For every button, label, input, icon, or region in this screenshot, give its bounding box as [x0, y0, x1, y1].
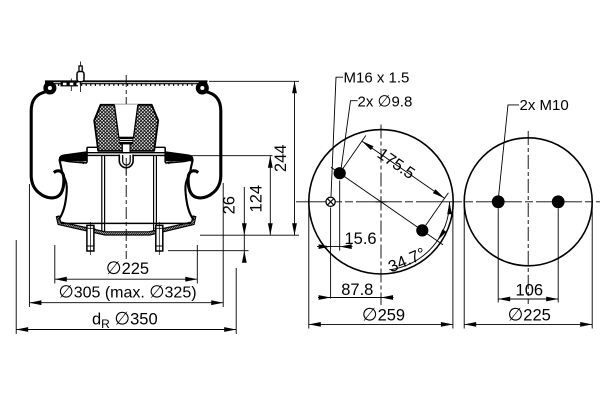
top plate left bead [45, 82, 54, 92]
top plate [45, 81, 208, 85]
bellows outline left [31, 92, 64, 198]
piston center bolt bullet [119, 155, 133, 177]
piston wing and skirt right [165, 152, 193, 220]
rubber bumper (crosshatched) [94, 104, 158, 151]
right circle vertical centerline [527, 131, 529, 304]
svg-text:2x M10: 2x M10 [520, 97, 569, 114]
dimension 26 [221, 187, 247, 263]
extension line top plate (for 244) [209, 80, 299, 82]
hole left M10 [492, 195, 505, 208]
svg-text:2x ∅9.8: 2x ∅9.8 [358, 93, 413, 110]
dimension 106 [498, 282, 558, 302]
dimension 15.6 [317, 230, 377, 249]
base dish (bottom plate) with hatch [56, 216, 195, 235]
svg-text:∅225: ∅225 [508, 304, 551, 324]
angle arc 34.7deg [386, 202, 452, 276]
svg-text:15.6: 15.6 [345, 230, 377, 248]
centerline vertical of side view [125, 75, 127, 259]
hole right M10 [552, 195, 565, 208]
left circle (Ø259 flange) [309, 130, 453, 274]
piston wing and skirt left [59, 152, 87, 220]
bellows outline right [188, 92, 221, 198]
dimension dR Ø350 [16, 309, 236, 332]
mounting studs under base [86, 222, 165, 255]
dimension 175.5 diagonal [343, 136, 448, 226]
extension line base bottom (for 244 / 124 / 26) [200, 234, 299, 236]
leader 2x M10 [499, 97, 569, 196]
left circle vertical centerline [380, 125, 382, 306]
piston boss plate [87, 147, 165, 162]
right circle (Ø225 flange) [464, 138, 592, 266]
extension lines for bottom diameters [16, 183, 236, 334]
leader M16 x 1.5 [331, 70, 409, 197]
extension line piston plate top (for 124) [160, 155, 273, 157]
top plate right bead [198, 82, 207, 92]
dimension Ø225 bottom left view [55, 258, 198, 282]
svg-text:124: 124 [248, 185, 266, 213]
piston inner cylinder walls [102, 155, 157, 231]
svg-text:M16 x 1.5: M16 x 1.5 [344, 70, 410, 87]
leader 2x Ø9.8 [341, 93, 412, 167]
bumper retainer nut and bolt [120, 137, 133, 152]
center cross mark [376, 196, 387, 207]
dimension Ø225 right view [464, 304, 592, 327]
hole lower-right 9.8 [416, 224, 428, 236]
extension lines below left circle [309, 181, 453, 329]
air fitting M16 symbol [326, 197, 335, 206]
extension line stud end (for 26) [168, 250, 249, 252]
svg-text:244: 244 [272, 145, 290, 173]
horizontal centerline through both circles [296, 201, 600, 203]
dimension Ø305 (max. Ø325) [29, 282, 223, 306]
hole upper-left 9.8 [334, 167, 346, 179]
svg-text:87.8: 87.8 [341, 281, 373, 299]
dimension 244 [272, 81, 297, 235]
dimension 124 [248, 156, 273, 236]
extension lines below right circle [464, 205, 592, 329]
svg-text:∅305 (max. ∅325): ∅305 (max. ∅325) [58, 282, 196, 302]
dimension Ø259 [309, 304, 453, 327]
diagonal line through holes [331, 167, 443, 245]
dimension 87.8 [318, 281, 394, 300]
svg-text:∅259: ∅259 [362, 304, 405, 324]
svg-text:106: 106 [516, 282, 544, 300]
svg-text:∅225: ∅225 [106, 258, 149, 278]
stud with clamp strip on top plate [61, 62, 85, 93]
